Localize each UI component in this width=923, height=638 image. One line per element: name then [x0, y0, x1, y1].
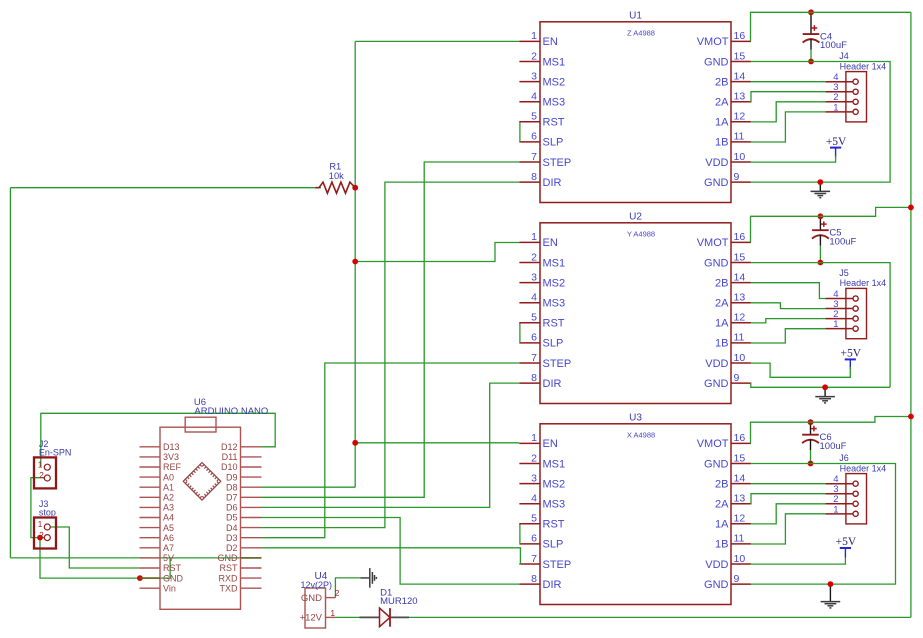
svg-text:A3: A3 — [163, 503, 174, 513]
svg-text:3: 3 — [531, 271, 537, 283]
svg-text:GND: GND — [704, 177, 729, 189]
svg-text:1: 1 — [531, 432, 537, 444]
svg-text:16: 16 — [734, 432, 746, 444]
svg-text:VMOT: VMOT — [697, 237, 729, 249]
svg-text:DIR: DIR — [543, 378, 562, 390]
svg-text:13: 13 — [734, 493, 746, 505]
svg-text:6: 6 — [531, 131, 537, 143]
svg-text:12v(2P): 12v(2P) — [301, 580, 333, 590]
svg-text:5: 5 — [531, 312, 537, 324]
svg-text:5: 5 — [531, 513, 537, 525]
svg-text:MS3: MS3 — [543, 499, 566, 511]
svg-text:MS1: MS1 — [543, 56, 566, 68]
svg-text:1: 1 — [38, 459, 43, 469]
svg-text:A5: A5 — [163, 523, 174, 533]
svg-text:VDD: VDD — [705, 559, 728, 571]
svg-text:A7: A7 — [163, 543, 174, 553]
svg-text:MS1: MS1 — [543, 458, 566, 470]
svg-text:D9: D9 — [226, 472, 238, 482]
svg-text:D7: D7 — [226, 493, 238, 503]
svg-text:15: 15 — [734, 452, 746, 464]
svg-text:D10: D10 — [221, 462, 238, 472]
svg-text:Vin: Vin — [163, 583, 176, 593]
svg-text:MUR120: MUR120 — [380, 596, 418, 607]
svg-text:U2: U2 — [629, 212, 642, 223]
svg-text:D3: D3 — [226, 533, 238, 543]
svg-text:U3: U3 — [629, 413, 642, 424]
svg-text:8: 8 — [531, 573, 537, 585]
svg-text:100uF: 100uF — [829, 236, 856, 247]
svg-text:A6: A6 — [163, 533, 174, 543]
svg-text:STEP: STEP — [543, 358, 572, 370]
svg-text:15: 15 — [734, 251, 746, 263]
svg-text:A4: A4 — [163, 513, 174, 523]
svg-text:U1: U1 — [629, 11, 642, 22]
svg-text:A0: A0 — [163, 472, 174, 482]
svg-text:En-SPN: En-SPN — [39, 448, 72, 458]
svg-text:MS2: MS2 — [543, 277, 566, 289]
svg-text:15: 15 — [734, 50, 746, 62]
svg-text:2B: 2B — [715, 478, 728, 490]
svg-text:GND: GND — [218, 553, 239, 563]
svg-text:RXD: RXD — [218, 573, 238, 583]
svg-text:11: 11 — [734, 533, 745, 545]
svg-text:6: 6 — [531, 332, 537, 344]
svg-text:3: 3 — [531, 70, 537, 82]
svg-text:D5: D5 — [226, 513, 238, 523]
svg-text:DIR: DIR — [543, 177, 562, 189]
svg-text:MS2: MS2 — [543, 76, 566, 88]
svg-text:2B: 2B — [715, 76, 728, 88]
svg-text:4: 4 — [531, 493, 537, 505]
svg-text:1B: 1B — [715, 539, 728, 551]
svg-text:100uF: 100uF — [820, 40, 847, 51]
svg-text:10: 10 — [734, 553, 746, 565]
svg-text:VMOT: VMOT — [697, 438, 729, 450]
svg-text:9: 9 — [734, 573, 740, 585]
svg-text:1A: 1A — [715, 519, 729, 531]
svg-text:A2: A2 — [163, 493, 174, 503]
svg-text:4: 4 — [531, 91, 537, 103]
svg-text:14: 14 — [734, 70, 746, 82]
svg-text:12: 12 — [734, 513, 746, 525]
svg-text:10k: 10k — [329, 171, 344, 181]
svg-text:2: 2 — [39, 470, 44, 480]
svg-text:ARDUINO NANO: ARDUINO NANO — [194, 406, 268, 417]
svg-text:Header 1x4: Header 1x4 — [840, 278, 887, 288]
svg-text:RST: RST — [543, 318, 565, 330]
svg-text:D13: D13 — [163, 442, 180, 452]
svg-text:GND: GND — [163, 573, 184, 583]
svg-text:VDD: VDD — [705, 358, 728, 370]
svg-text:1A: 1A — [715, 318, 729, 330]
svg-text:D12: D12 — [221, 442, 238, 452]
svg-text:2A: 2A — [715, 298, 729, 310]
svg-text:TXD: TXD — [220, 583, 239, 593]
svg-text:2: 2 — [335, 588, 340, 598]
svg-text:GND: GND — [704, 56, 729, 68]
svg-text:1: 1 — [531, 30, 537, 42]
svg-text:2: 2 — [531, 251, 537, 263]
svg-text:EN: EN — [543, 36, 558, 48]
svg-text:D11: D11 — [222, 452, 238, 462]
svg-text:Header 1x4: Header 1x4 — [840, 61, 887, 71]
svg-text:9: 9 — [734, 372, 740, 384]
svg-text:D8: D8 — [226, 482, 238, 492]
svg-text:1A: 1A — [715, 117, 729, 129]
svg-text:13: 13 — [734, 292, 746, 304]
svg-text:RST: RST — [543, 519, 565, 531]
svg-text:RST: RST — [220, 563, 239, 573]
svg-text:SLP: SLP — [543, 137, 564, 149]
svg-text:STEP: STEP — [543, 559, 572, 571]
svg-text:MS3: MS3 — [543, 97, 566, 109]
svg-text:STEP: STEP — [543, 157, 572, 169]
svg-text:7: 7 — [531, 151, 537, 163]
svg-text:Y A4988: Y A4988 — [627, 229, 655, 238]
svg-text:14: 14 — [734, 271, 746, 283]
svg-text:6: 6 — [531, 533, 537, 545]
svg-text:11: 11 — [734, 332, 745, 344]
svg-text:DIR: DIR — [543, 579, 562, 591]
svg-text:RST: RST — [543, 117, 565, 129]
svg-text:J6: J6 — [839, 453, 849, 463]
svg-text:7: 7 — [531, 352, 537, 364]
svg-text:VDD: VDD — [705, 157, 728, 169]
svg-text:+5V: +5V — [826, 136, 847, 148]
svg-text:10: 10 — [734, 352, 746, 364]
svg-text:R1: R1 — [329, 161, 341, 171]
svg-text:SLP: SLP — [543, 338, 564, 350]
svg-text:REF: REF — [163, 462, 182, 472]
svg-text:3: 3 — [531, 472, 537, 484]
svg-text:16: 16 — [734, 231, 746, 243]
svg-text:2: 2 — [531, 50, 537, 62]
svg-text:VMOT: VMOT — [697, 36, 729, 48]
svg-text:D6: D6 — [226, 503, 238, 513]
svg-text:1: 1 — [833, 102, 838, 113]
svg-text:GND: GND — [704, 378, 729, 390]
svg-text:RST: RST — [163, 563, 182, 573]
svg-text:MS2: MS2 — [543, 478, 566, 490]
svg-text:100uF: 100uF — [820, 441, 847, 452]
svg-text:8: 8 — [531, 372, 537, 384]
svg-text:+12V: +12V — [300, 613, 323, 624]
svg-text:D4: D4 — [226, 523, 238, 533]
svg-text:Z A4988: Z A4988 — [627, 28, 655, 37]
svg-text:stop: stop — [39, 508, 56, 518]
svg-text:1B: 1B — [715, 137, 728, 149]
svg-text:1: 1 — [38, 519, 43, 529]
svg-text:10: 10 — [734, 151, 746, 163]
svg-text:GND: GND — [704, 458, 729, 470]
svg-text:1: 1 — [833, 319, 838, 330]
svg-text:2B: 2B — [715, 277, 728, 289]
svg-text:7: 7 — [531, 553, 537, 565]
svg-text:3V3: 3V3 — [163, 452, 179, 462]
svg-text:9: 9 — [734, 171, 740, 183]
svg-text:SLP: SLP — [543, 539, 564, 551]
svg-text:+5V: +5V — [836, 536, 857, 548]
svg-text:4: 4 — [531, 292, 537, 304]
svg-text:2: 2 — [531, 452, 537, 464]
svg-text:MS3: MS3 — [543, 298, 566, 310]
svg-text:12: 12 — [734, 312, 746, 324]
svg-text:X A4988: X A4988 — [627, 430, 655, 439]
svg-text:A1: A1 — [163, 482, 174, 492]
svg-text:2A: 2A — [715, 499, 729, 511]
svg-text:1: 1 — [330, 608, 335, 618]
svg-text:GND: GND — [704, 579, 729, 591]
svg-text:5: 5 — [531, 111, 537, 123]
svg-text:+5V: +5V — [841, 348, 862, 360]
svg-text:J5: J5 — [839, 268, 849, 278]
svg-text:12: 12 — [734, 111, 746, 123]
svg-text:8: 8 — [531, 171, 537, 183]
svg-text:11: 11 — [734, 131, 745, 143]
svg-text:1: 1 — [833, 504, 838, 515]
svg-text:J4: J4 — [839, 51, 849, 61]
svg-text:EN: EN — [543, 438, 558, 450]
svg-text:2A: 2A — [715, 97, 729, 109]
svg-text:GND: GND — [301, 593, 322, 604]
svg-text:16: 16 — [734, 30, 746, 42]
svg-text:MS1: MS1 — [543, 257, 566, 269]
svg-text:GND: GND — [704, 257, 729, 269]
svg-text:14: 14 — [734, 472, 746, 484]
svg-text:5V: 5V — [163, 553, 174, 563]
svg-text:13: 13 — [734, 91, 746, 103]
svg-text:Header 1x4: Header 1x4 — [840, 463, 887, 473]
svg-text:2: 2 — [39, 530, 44, 540]
svg-text:1B: 1B — [715, 338, 728, 350]
svg-text:D2: D2 — [226, 543, 238, 553]
svg-text:1: 1 — [531, 231, 537, 243]
svg-text:EN: EN — [543, 237, 558, 249]
